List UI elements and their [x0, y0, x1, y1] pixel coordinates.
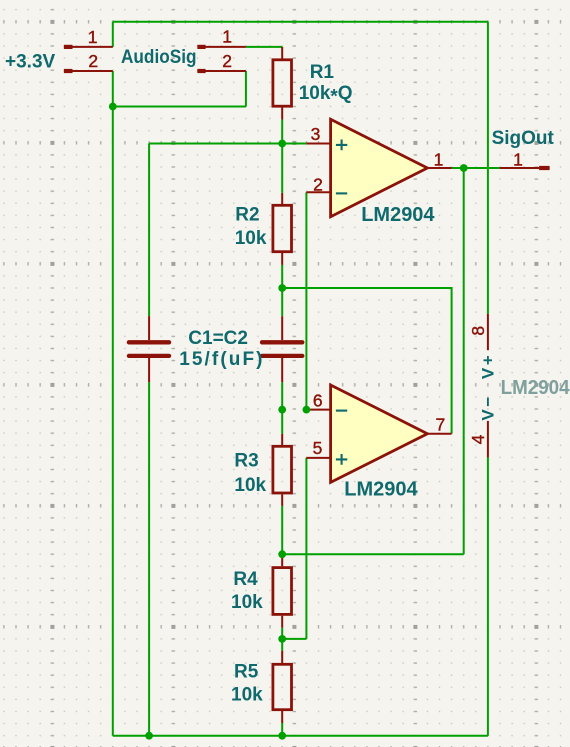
svg-text:6: 6 [313, 390, 323, 410]
junction pin6 node [303, 406, 311, 414]
svg-text:R5: R5 [234, 661, 259, 682]
wire left ground drop [112, 71, 114, 736]
op-amp A pin 3 stub [306, 143, 330, 145]
resistor R4 leads [281, 554, 283, 628]
op-amp U1A triangle [331, 119, 428, 216]
svg-text:C1=C2: C1=C2 [188, 328, 248, 349]
wire SigOut feedback to R4 top [282, 553, 464, 555]
svg-text:5: 5 [313, 438, 323, 458]
svg-text:2: 2 [222, 51, 232, 71]
svg-text:R4: R4 [233, 569, 258, 590]
wire gnd link to AudioSig pin2 [113, 106, 246, 108]
wires group [113, 22, 500, 736]
svg-text:10k*Q: 10k*Q [299, 83, 353, 108]
svg-text:AudioSig: AudioSig [121, 47, 197, 68]
op-amp A pin 1 output stub [427, 167, 451, 169]
resistor R2 [273, 205, 292, 251]
junction R4/R5 node [278, 635, 286, 643]
wire R4 to R5 [281, 628, 283, 651]
svg-text:10k: 10k [235, 228, 267, 249]
op-amp U1B plus mark [336, 454, 347, 465]
pin 2 of +3.3V connector [64, 70, 113, 72]
resistor R5 leads [281, 651, 283, 723]
resistor R5 [273, 664, 292, 709]
junction R2/C2 node [278, 284, 286, 292]
wire feedback R2 node to op-amp B output [282, 288, 451, 434]
svg-text:SigOut: SigOut [492, 128, 555, 149]
svg-text:8: 8 [468, 326, 488, 336]
svg-text:R3: R3 [234, 450, 258, 471]
capacitor C2 leads [281, 316, 283, 382]
pad SigOut [539, 166, 550, 170]
svg-text:V−: V− [479, 394, 498, 420]
pad +3.3V pin2 [64, 69, 73, 73]
capacitor C1 [129, 342, 169, 356]
power pin 4 V- [487, 421, 489, 457]
op-amp B pin 5 stub [306, 457, 330, 459]
pad +3.3V pin1 [64, 45, 73, 49]
wire node A rail to op-amp pin3 [149, 143, 306, 145]
wire pin4 to ground rail [487, 457, 489, 735]
pin 1 of +3.3V connector [64, 46, 113, 48]
junction R5/ground rail [278, 732, 286, 740]
junction gnd/+3.3V pin2 [109, 103, 117, 111]
capacitor C2 [262, 342, 302, 356]
resistor R1 [273, 60, 292, 106]
svg-text:R2: R2 [235, 205, 259, 226]
pad AudioSig pin1 [197, 45, 205, 49]
wire op-amp B pin5 drop [305, 458, 307, 639]
wire bottom ground rail [113, 735, 488, 737]
op-amp U1B minus mark [336, 410, 347, 412]
wire R1 to R2 [281, 120, 283, 193]
op-amp B pin 6 stub [306, 409, 330, 411]
power pin 8 V+ [487, 314, 489, 350]
wire AudioSig pin2 drop [245, 71, 247, 107]
pin 1 of AudioSig connector [197, 46, 246, 48]
junction C2/R3 node [278, 406, 286, 414]
svg-text:1: 1 [513, 150, 523, 170]
wire R5 to ground rail [281, 723, 283, 736]
resistor R2 leads [281, 193, 283, 265]
op-amp B pin 7 output stub [427, 433, 451, 435]
wire R3 to R4 [281, 506, 283, 554]
svg-text:4: 4 [468, 434, 488, 444]
svg-text:LM2904: LM2904 [501, 377, 570, 399]
svg-text:+3.3V: +3.3V [5, 52, 56, 73]
svg-text:2: 2 [88, 51, 98, 71]
wire top rail V+ [113, 21, 488, 23]
wire op-amp A pin2 to op-amp B pin6 [305, 192, 307, 409]
junction R3/R4 node [278, 550, 286, 558]
op-amp A pin 2 stub [306, 191, 330, 193]
svg-text:1: 1 [434, 150, 444, 170]
wire C1 top [148, 144, 150, 317]
svg-text:10k: 10k [231, 685, 263, 706]
svg-text:1: 1 [222, 27, 232, 47]
junction SigOut node [460, 164, 468, 172]
resistor R3 leads [281, 434, 283, 506]
svg-text:2: 2 [313, 174, 323, 194]
resistor R1 leads [281, 47, 283, 120]
svg-text:1: 1 [88, 27, 98, 47]
junction C1/ground rail [145, 732, 153, 740]
wire AudioSig pin1 to R1 [246, 46, 282, 48]
capacitor C1 leads [148, 316, 150, 382]
wire +3.3V pin1 riser [112, 22, 114, 47]
svg-text:V+: V+ [479, 353, 498, 379]
svg-text:7: 7 [436, 415, 446, 435]
wire pin5 drop to R4/R5 node [282, 638, 306, 640]
pin 2 of AudioSig connector [197, 70, 246, 72]
svg-text:R1: R1 [310, 62, 335, 83]
op-amp U1B triangle [331, 385, 428, 482]
SigOut pin stub [500, 167, 539, 169]
svg-text:10k: 10k [231, 592, 263, 613]
wire C1 bottom to ground rail [148, 382, 150, 736]
op-amp U1A minus mark [336, 192, 347, 194]
wire SigOut feedback down [463, 168, 465, 554]
svg-text:10k: 10k [234, 475, 266, 496]
resistor R3 [273, 446, 292, 493]
junction R1/R2/pin3 node [278, 140, 286, 148]
wire C2 to R3 [281, 382, 283, 434]
wire op-amp A output to SigOut [452, 167, 500, 169]
svg-text:LM2904: LM2904 [361, 204, 435, 226]
wire R2 to C2 [281, 265, 283, 316]
pad AudioSig pin2 [197, 69, 205, 73]
connector pin end pads [64, 45, 550, 170]
red pin stubs [64, 47, 539, 723]
wire right V+ drop to pin8 [487, 22, 489, 314]
resistor R4 [273, 568, 292, 615]
op-amp U1A plus mark [336, 140, 347, 151]
svg-text:15/f(uF): 15/f(uF) [179, 349, 264, 370]
svg-text:3: 3 [311, 124, 321, 144]
svg-text:LM2904: LM2904 [344, 478, 418, 500]
